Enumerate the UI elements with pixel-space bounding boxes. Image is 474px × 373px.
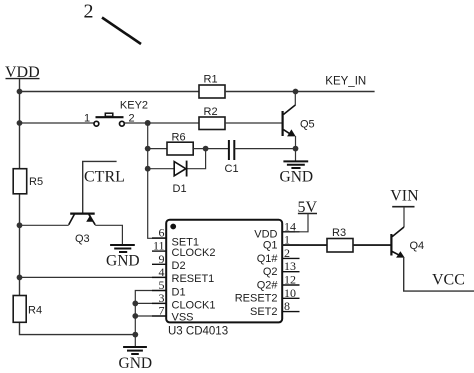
node: R6/D1/C1 junction bbox=[203, 146, 209, 152]
svg-text:R2: R2 bbox=[204, 106, 218, 118]
svg-text:R4: R4 bbox=[28, 305, 42, 317]
wire: VDD to R1 bbox=[20, 91, 200, 93]
svg-text:RESET1: RESET1 bbox=[172, 273, 215, 285]
svg-text:Q1: Q1 bbox=[263, 240, 278, 252]
wire: left VDD rail bbox=[19, 92, 21, 169]
IC U3 CD4013 body bbox=[166, 220, 282, 338]
transistor Q4 bbox=[391, 227, 424, 258]
svg-text:CLOCK1: CLOCK1 bbox=[172, 299, 216, 311]
wire: left rail R5 to R4 bbox=[19, 194, 21, 296]
wire: Q3 emitter to ground bbox=[95, 225, 122, 244]
pin 6 SET1 bbox=[152, 226, 199, 249]
svg-text:GND: GND bbox=[106, 253, 140, 270]
ground bottom bbox=[119, 347, 153, 372]
node: D1 anode junction bbox=[145, 166, 151, 172]
svg-text:CTRL: CTRL bbox=[84, 169, 125, 186]
svg-text:D1: D1 bbox=[172, 286, 186, 298]
svg-text:C1: C1 bbox=[225, 163, 239, 175]
pin 12 Q2# bbox=[257, 273, 300, 292]
pin 8 SET2 bbox=[250, 299, 300, 318]
wire: VSS pin 7 bbox=[135, 315, 166, 317]
wire: key node down to SET1 pin 6 bbox=[148, 123, 166, 238]
resistor R5 bbox=[13, 169, 43, 194]
svg-text:GND: GND bbox=[119, 355, 153, 372]
svg-text:R5: R5 bbox=[29, 176, 43, 188]
svg-text:R3: R3 bbox=[332, 227, 346, 239]
pin 10 RESET2 bbox=[235, 286, 300, 305]
node: R6 left junction bbox=[145, 146, 151, 152]
capacitor C1 bbox=[225, 140, 239, 175]
pin 14 VDD bbox=[254, 219, 299, 240]
wire: CLOCK1 pin 3 bbox=[135, 302, 166, 304]
resistor R4 bbox=[13, 296, 42, 323]
wire: Q4 emitter to VCC bbox=[404, 257, 474, 291]
svg-text:2: 2 bbox=[84, 1, 94, 23]
svg-text:KEY_IN: KEY_IN bbox=[325, 76, 366, 88]
wire: rail to RESET1 pin 4 bbox=[20, 276, 167, 278]
pin 1 Q1 bbox=[263, 233, 300, 252]
wire: rail to switch KEY2 bbox=[20, 122, 95, 124]
wire: D1 pin 5 loop down bbox=[135, 291, 166, 347]
wire: R3 to Q4 base bbox=[353, 244, 391, 246]
svg-text:D2: D2 bbox=[172, 260, 186, 272]
wire: node to R6 bbox=[148, 148, 167, 150]
svg-text:Q2: Q2 bbox=[263, 266, 278, 278]
wire: R6 to C1 bbox=[193, 148, 229, 150]
resistor R3 bbox=[327, 227, 353, 252]
wire: junction down to D1 cathode bbox=[187, 149, 206, 169]
wire: D1 anode to key node column bbox=[148, 168, 175, 170]
node: rail/switch junction bbox=[17, 120, 23, 126]
ground at Q3 emitter bbox=[106, 245, 140, 270]
svg-text:R1: R1 bbox=[204, 74, 218, 86]
node: pin3 junction bbox=[132, 301, 138, 307]
net label VDD bbox=[5, 64, 40, 92]
node: VDD rail / R1 junction bbox=[17, 89, 23, 95]
pin 4 RESET1 bbox=[152, 265, 214, 285]
net label VIN bbox=[390, 187, 419, 227]
node: rail/Q3 junction bbox=[17, 222, 23, 228]
pin 2 Q1# bbox=[257, 246, 300, 265]
svg-text:Q1#: Q1# bbox=[257, 253, 279, 265]
switch KEY2 bbox=[84, 100, 148, 127]
net label CTRL bbox=[83, 161, 125, 212]
pin 9 D2 bbox=[152, 252, 186, 272]
wire: R2 to Q5 base bbox=[225, 122, 282, 124]
svg-text:VCC: VCC bbox=[432, 272, 465, 289]
wire: rail to Q3 collector bbox=[20, 224, 69, 226]
node: pin7 junction bbox=[132, 313, 138, 319]
resistor R2 bbox=[199, 106, 225, 130]
svg-text:Q3: Q3 bbox=[75, 233, 90, 245]
resistor R6 bbox=[167, 132, 193, 156]
resistor R1 bbox=[199, 74, 225, 99]
node: R1/Q5 collector junction bbox=[293, 89, 299, 95]
svg-text:GND: GND bbox=[280, 169, 314, 186]
svg-text:CLOCK2: CLOCK2 bbox=[172, 247, 216, 259]
ground below Q5 bbox=[280, 161, 314, 185]
svg-text:Q4: Q4 bbox=[410, 240, 425, 252]
wire: switch to R2 bbox=[125, 122, 200, 124]
svg-text:Q2#: Q2# bbox=[257, 279, 279, 291]
node: C1/Q5 emitter junction bbox=[293, 146, 299, 152]
svg-text:U3 CD4013: U3 CD4013 bbox=[168, 325, 228, 337]
svg-text:D1: D1 bbox=[173, 183, 187, 195]
transistor Q3 bbox=[69, 214, 96, 245]
pin 5 D1 bbox=[152, 278, 186, 298]
pin 11 CLOCK2 bbox=[152, 239, 216, 260]
pin 3 CLOCK1 bbox=[152, 291, 216, 312]
svg-text:KEY2: KEY2 bbox=[120, 100, 148, 112]
transistor Q5 bbox=[283, 92, 315, 149]
wire: C1 to Q5 emitter node bbox=[234, 148, 295, 150]
svg-text:SET2: SET2 bbox=[250, 306, 278, 318]
node: rail/RESET1 junction bbox=[17, 275, 23, 281]
svg-text:VSS: VSS bbox=[172, 312, 194, 324]
node: key junction bbox=[145, 120, 151, 126]
svg-text:RESET2: RESET2 bbox=[235, 293, 278, 305]
diode D1 bbox=[173, 161, 187, 195]
net label 5V bbox=[295, 199, 318, 232]
svg-text:1: 1 bbox=[84, 113, 90, 125]
node: bottom wire junction bbox=[132, 332, 138, 338]
svg-text:Q5: Q5 bbox=[300, 119, 315, 131]
wire: Q1 to R3 bbox=[282, 244, 327, 246]
svg-text:VDD: VDD bbox=[254, 228, 277, 240]
svg-text:VIN: VIN bbox=[390, 187, 419, 204]
pin 13 Q2 bbox=[263, 259, 300, 278]
wire: R1 to KEY_IN bbox=[225, 91, 375, 93]
wire: Q5 emitter node to ground bbox=[295, 149, 297, 162]
wire: left rail R4 to bottom bbox=[20, 322, 136, 334]
pin 7 VSS bbox=[152, 304, 194, 324]
callout label 2 bbox=[84, 1, 142, 45]
